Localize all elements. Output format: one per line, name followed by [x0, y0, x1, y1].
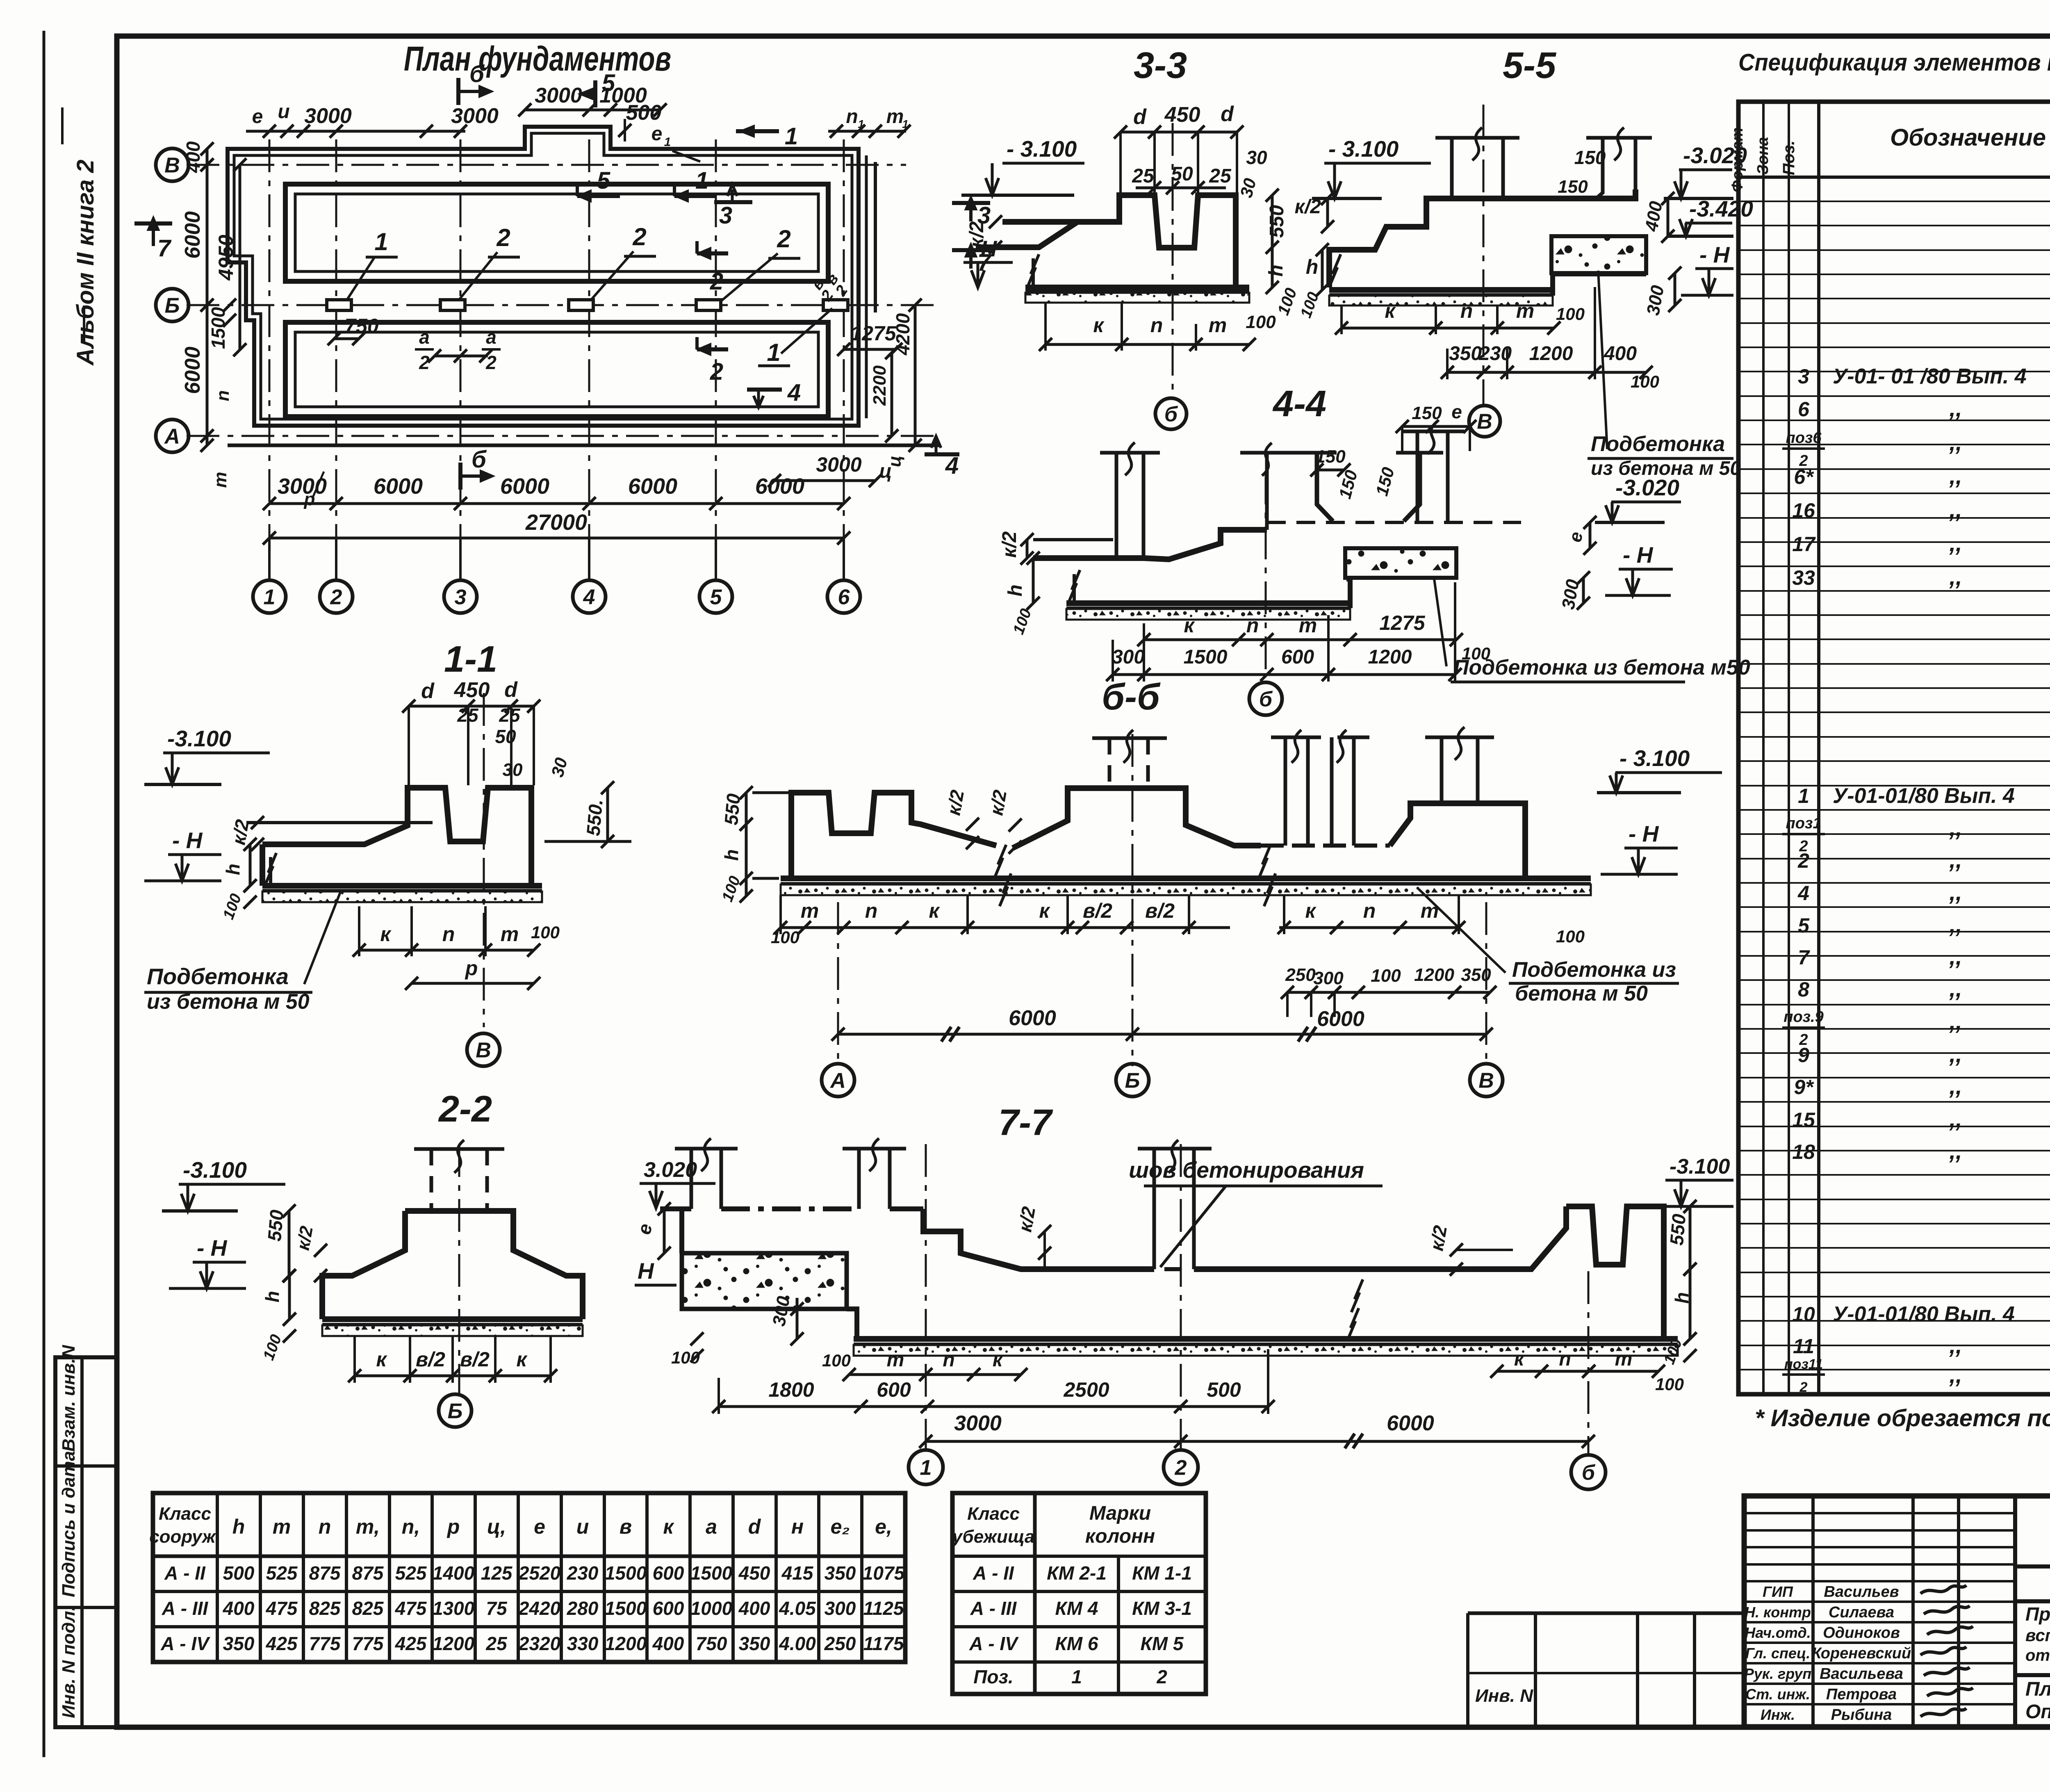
svg-text:230: 230: [567, 1562, 599, 1584]
svg-text:3000: 3000: [535, 84, 582, 107]
svg-text:* Изделие обрезается по мес: * Изделие обрезается по месту.: [1755, 1405, 2050, 1432]
svg-text:1: 1: [664, 135, 671, 149]
svg-text:3000: 3000: [816, 453, 861, 476]
svg-text:3000: 3000: [954, 1411, 1002, 1435]
svg-text:d: d: [1133, 105, 1147, 129]
svg-text:А - IV: А - IV: [160, 1633, 210, 1654]
svg-text:2200: 2200: [870, 365, 890, 406]
svg-text:h: h: [222, 864, 244, 875]
spec table grid: [1738, 102, 2050, 1394]
svg-text:к: к: [516, 1348, 528, 1371]
section 3-3 slab: [1025, 285, 1249, 290]
svg-text:В: В: [1478, 1069, 1494, 1093]
section 4-4 axis line: [1265, 472, 1267, 676]
svg-text:1: 1: [785, 123, 798, 150]
svg-text:50: 50: [495, 726, 516, 747]
svg-text:Васильев: Васильев: [1824, 1583, 1899, 1600]
svg-text:6000: 6000: [1387, 1411, 1434, 1435]
svg-text:1: 1: [767, 339, 780, 366]
svg-text:убежища: убежища: [951, 1527, 1034, 1547]
svg-text:1075: 1075: [863, 1562, 905, 1584]
svg-text:,,: ,,: [1949, 1106, 1962, 1132]
svg-text:-3.020: -3.020: [1615, 475, 1679, 500]
svg-text:825: 825: [352, 1598, 384, 1619]
svg-text:У-01- 01 /80 Вып. 4: У-01- 01 /80 Вып. 4: [1833, 365, 2027, 388]
svg-text:27000: 27000: [525, 510, 587, 535]
svg-text:100: 100: [531, 923, 560, 942]
section 7-7 slab: [854, 1336, 1678, 1342]
svg-text:250: 250: [1285, 965, 1316, 985]
section 2-2 axis circle Б: [439, 1394, 471, 1427]
svg-text:2: 2: [496, 224, 510, 251]
svg-text:Н: Н: [638, 1258, 654, 1284]
column circle 4: [573, 580, 606, 613]
svg-text:550.: 550.: [582, 798, 607, 837]
svg-text:350: 350: [1461, 965, 1491, 985]
svg-text:775: 775: [352, 1633, 384, 1654]
svg-text:2: 2: [1797, 849, 1809, 872]
svg-text:425: 425: [395, 1633, 427, 1654]
svg-text:- 3.100: - 3.100: [1328, 136, 1399, 162]
svg-text:е: е: [252, 106, 263, 128]
svg-text:1: 1: [374, 228, 388, 255]
svg-text:КМ 5: КМ 5: [1141, 1633, 1184, 1654]
svg-text:2: 2: [1799, 1379, 1808, 1395]
svg-text:,,: ,,: [1949, 847, 1962, 873]
svg-text:- Н: - Н: [1699, 242, 1730, 267]
svg-text:2500: 2500: [1063, 1378, 1109, 1401]
svg-text:,,: ,,: [1949, 1073, 1962, 1099]
svg-text:В: В: [164, 154, 180, 178]
section 4-4 left columns: [1115, 453, 1118, 558]
svg-text:е: е: [1451, 401, 1462, 422]
column axis lines 1..6: [269, 139, 271, 579]
svg-text:Зона: Зона: [1754, 137, 1772, 175]
svg-text:-3.100: -3.100: [183, 1157, 247, 1183]
svg-text:1-1: 1-1: [444, 639, 497, 680]
column circle 6: [827, 580, 860, 613]
svg-text:Поз.: Поз.: [1780, 141, 1798, 176]
svg-text:А - II: А - II: [973, 1562, 1014, 1584]
svg-text:h: h: [1306, 255, 1319, 278]
svg-text:КМ 1-1: КМ 1-1: [1132, 1562, 1192, 1584]
section 4-4 foundation outline: [1033, 530, 1267, 559]
section 7-7 top surface: [660, 1206, 691, 1211]
svg-text:е: е: [1565, 530, 1587, 544]
svg-text:Взам. инв.N: Взам. инв.N: [59, 1345, 79, 1452]
section 4-4 slab: [1066, 600, 1350, 606]
svg-text:к/2: к/2: [1295, 196, 1321, 218]
svg-text:100: 100: [719, 874, 744, 904]
section 1-1 axis line: [483, 693, 485, 1027]
svg-text:Васильева: Васильева: [1820, 1665, 1903, 1683]
svg-text:18: 18: [1792, 1140, 1815, 1163]
svg-text:25: 25: [499, 704, 521, 726]
svg-text:- 3.100: - 3.100: [1007, 136, 1077, 162]
svg-text:Марки: Марки: [1089, 1502, 1151, 1524]
svg-text:6000: 6000: [1317, 1007, 1364, 1031]
svg-text:h: h: [262, 1291, 283, 1302]
svg-text:5: 5: [602, 70, 615, 96]
svg-text:вспомогательного назначения: вспомогательного назначения: [2025, 1626, 2050, 1645]
svg-text:к: к: [380, 923, 392, 946]
svg-text:550: 550: [264, 1209, 288, 1242]
svg-text:n: n: [319, 1515, 331, 1538]
svg-text:поз1: поз1: [1786, 815, 1822, 832]
svg-text:550: 550: [1266, 205, 1288, 238]
svg-text:400: 400: [223, 1598, 255, 1619]
svg-text:600: 600: [653, 1562, 684, 1584]
svg-text:525: 525: [266, 1562, 298, 1584]
svg-text:к: к: [993, 1349, 1004, 1371]
svg-text:10: 10: [1792, 1303, 1815, 1326]
svg-text:100: 100: [1274, 286, 1301, 318]
section 5-5 columns: [1450, 138, 1454, 198]
section flag 4 (right): [925, 452, 959, 456]
svg-text:11: 11: [1793, 1335, 1814, 1358]
svg-text:300: 300: [825, 1598, 856, 1619]
svg-text:Обозначение: Обозначение: [1890, 124, 2046, 151]
svg-text:150: 150: [1574, 147, 1606, 168]
section 6-6 left mound outline: [791, 793, 996, 878]
svg-text:450: 450: [738, 1562, 770, 1584]
svg-text:б: б: [1582, 1461, 1596, 1485]
section 2-2 dashed column: [430, 1149, 433, 1211]
svg-text:Производственное здание: Производственное здание: [2025, 1603, 2050, 1625]
svg-text:16: 16: [1792, 499, 1815, 522]
svg-text:-3.420: -3.420: [1689, 196, 1753, 221]
svg-text:Б: Б: [448, 1400, 463, 1423]
section flag 4 (inside): [747, 388, 782, 392]
svg-text:,,: ,,: [1949, 1332, 1962, 1358]
svg-text:400: 400: [1604, 343, 1637, 365]
svg-text:30: 30: [503, 760, 523, 780]
svg-text:4.00: 4.00: [779, 1633, 816, 1654]
svg-text:к/2: к/2: [1014, 1205, 1039, 1233]
svg-text:к: к: [1184, 614, 1195, 637]
svg-text:6000: 6000: [755, 474, 804, 499]
svg-text:Кореневский: Кореневский: [1812, 1645, 1911, 1662]
svg-text:б: б: [1164, 403, 1178, 426]
svg-text:1500: 1500: [1184, 646, 1228, 668]
svg-text:а: а: [486, 326, 497, 348]
svg-text:Одиноков: Одиноков: [1823, 1624, 1900, 1642]
section 6-6 middle mound outline: [1013, 788, 1261, 848]
svg-text:к/2: к/2: [985, 788, 1011, 817]
svg-text:350: 350: [1449, 343, 1482, 365]
svg-text:33: 33: [1792, 566, 1815, 589]
section 6-6 axis circle А: [822, 1064, 854, 1097]
section 6-6 dashed column above Б: [1108, 738, 1112, 788]
svg-text:Н. контр: Н. контр: [1745, 1604, 1811, 1621]
svg-text:Спецификация элементов к схема: Спецификация элементов к схемам располож…: [1738, 49, 2050, 76]
svg-text:н: н: [791, 1515, 804, 1538]
svg-text:6*: 6*: [1794, 465, 1814, 488]
svg-text:2420: 2420: [518, 1598, 561, 1619]
plan outer contour: [228, 127, 859, 426]
column circle 1: [253, 580, 286, 613]
svg-text:4.05: 4.05: [779, 1598, 816, 1619]
svg-text:В: В: [1477, 410, 1492, 434]
section 7-7 second columns: [857, 1149, 861, 1209]
svg-text:поз11: поз11: [1784, 1357, 1823, 1372]
svg-text:- Н: - Н: [1629, 821, 1659, 846]
column circle 2: [320, 580, 353, 613]
svg-text:сооруж.: сооруж.: [149, 1527, 221, 1547]
svg-text:d: d: [1221, 102, 1234, 126]
svg-text:h: h: [721, 849, 742, 861]
svg-text:к: к: [376, 1348, 387, 1371]
svg-text:4: 4: [583, 586, 595, 609]
section flag 1 (top): [736, 129, 779, 133]
svg-text:бетона м 50: бетона м 50: [1515, 982, 1648, 1005]
section 7-7 right crown: [1566, 1206, 1664, 1339]
svg-text:h: h: [1265, 264, 1287, 276]
svg-text:поз.9: поз.9: [1783, 1008, 1824, 1026]
svg-text:m: m: [801, 899, 819, 922]
section 6-6 axis lines: [837, 902, 839, 1066]
svg-text:1: 1: [1071, 1666, 1082, 1687]
svg-text:к/2: к/2: [999, 531, 1020, 558]
svg-text:n: n: [865, 899, 878, 922]
svg-text:е₂: е₂: [831, 1515, 850, 1538]
svg-text:n: n: [846, 106, 858, 128]
svg-text:3-3: 3-3: [1134, 45, 1187, 86]
section 6-6 axis circle В: [1470, 1064, 1503, 1097]
section flag 1 (inside): [674, 194, 717, 198]
svg-text:17: 17: [1792, 533, 1816, 556]
svg-text:n,: n,: [402, 1515, 420, 1538]
svg-text:Поз.: Поз.: [973, 1666, 1013, 1687]
svg-text:1500: 1500: [207, 307, 229, 349]
svg-text:m: m: [1299, 614, 1317, 637]
svg-text:Подпись и дата: Подпись и дата: [59, 1451, 79, 1597]
svg-text:,,: ,,: [1949, 1138, 1962, 1164]
svg-text:415: 415: [781, 1562, 814, 1584]
svg-text:1275: 1275: [850, 322, 896, 345]
section 7-7 circle 1: [909, 1450, 943, 1484]
svg-text:100: 100: [1371, 966, 1401, 986]
svg-text:в/2: в/2: [1145, 899, 1175, 922]
svg-text:а: а: [419, 326, 430, 348]
svg-text:1300: 1300: [433, 1598, 475, 1619]
svg-text:m: m: [887, 1349, 904, 1371]
svg-text:- 3.100: - 3.100: [1619, 746, 1690, 771]
svg-text:б-б: б-б: [1102, 677, 1161, 718]
section 7-7 third columns: [1153, 1149, 1156, 1269]
section 2-2 slab: [322, 1316, 583, 1322]
svg-text:475: 475: [395, 1598, 427, 1619]
svg-text:5-5: 5-5: [1503, 45, 1557, 86]
svg-text:125: 125: [481, 1562, 513, 1584]
svg-text:6: 6: [1798, 398, 1810, 421]
svg-text:4: 4: [787, 379, 801, 406]
svg-text:400: 400: [652, 1633, 684, 1654]
section 5-5 step and podbetonka block: [1553, 274, 1646, 296]
svg-text:,,: ,,: [1949, 815, 1962, 841]
svg-text:750: 750: [696, 1633, 727, 1654]
svg-text:d: d: [504, 678, 518, 702]
svg-text:2: 2: [710, 268, 723, 295]
svg-text:к: к: [1514, 1348, 1525, 1370]
svg-text:6000: 6000: [628, 474, 677, 499]
svg-text:2: 2: [710, 358, 723, 385]
svg-text:6000: 6000: [374, 474, 423, 499]
svg-text:,,: ,,: [1949, 1362, 1962, 1388]
svg-text:150: 150: [1558, 177, 1588, 197]
svg-text:n: n: [1460, 299, 1473, 322]
svg-text:6: 6: [838, 586, 850, 609]
svg-text:500: 500: [223, 1562, 255, 1584]
svg-text:поз6: поз6: [1786, 429, 1822, 447]
svg-text:75: 75: [486, 1598, 508, 1619]
svg-text:600: 600: [877, 1378, 911, 1401]
svg-text:7-7: 7-7: [998, 1102, 1053, 1143]
column circle 5: [699, 580, 732, 613]
svg-text:n: n: [213, 390, 233, 401]
svg-text:6000: 6000: [181, 211, 205, 259]
svg-text:-3.100: -3.100: [167, 726, 231, 751]
axis line В: [187, 164, 906, 166]
svg-text:в: в: [620, 1515, 632, 1538]
section 2-2 axis line: [458, 1144, 460, 1393]
svg-text:Подбетонка из: Подбетонка из: [1512, 958, 1676, 982]
svg-text:,,: ,,: [1949, 1041, 1962, 1067]
svg-text:100: 100: [771, 928, 799, 947]
svg-text:100: 100: [822, 1351, 851, 1370]
svg-text:- Н: - Н: [1623, 542, 1654, 568]
svg-text:875: 875: [309, 1562, 341, 1584]
svg-text:шов бетонирования: шов бетонирования: [1129, 1157, 1364, 1183]
svg-text:Инв. N: Инв. N: [1475, 1686, 1533, 1706]
svg-text:2: 2: [632, 223, 646, 251]
svg-text:1125: 1125: [863, 1598, 904, 1619]
section 7-7 left wall + concrete block: [679, 1209, 684, 1253]
svg-text:425: 425: [266, 1633, 298, 1654]
section 7-7 circle 2: [1164, 1450, 1198, 1484]
svg-text:280: 280: [567, 1598, 599, 1619]
section 6-6 slab: [781, 875, 1591, 881]
section 6-6 right columns group: [1284, 737, 1287, 846]
lower room walls: [285, 322, 828, 417]
svg-text:к: к: [663, 1515, 674, 1538]
svg-text:h: h: [232, 1515, 245, 1538]
svg-text:30: 30: [1236, 176, 1260, 200]
svg-text:А - II: А - II: [164, 1562, 206, 1584]
svg-text:m: m: [886, 106, 904, 128]
svg-text:50: 50: [1171, 163, 1193, 185]
svg-text:25: 25: [485, 1633, 508, 1654]
svg-text:в/2: в/2: [460, 1348, 490, 1371]
svg-text:150: 150: [1315, 447, 1346, 467]
svg-text:100: 100: [1556, 927, 1585, 946]
svg-text:m: m: [1209, 314, 1227, 337]
svg-text:е: е: [534, 1515, 545, 1538]
svg-text:m: m: [273, 1515, 291, 1538]
svg-text:100: 100: [1556, 304, 1585, 324]
section flag 5 (top): [593, 80, 597, 107]
svg-text:-3.100: -3.100: [1670, 1155, 1730, 1179]
svg-text:150: 150: [1372, 465, 1398, 498]
svg-text:30: 30: [1246, 147, 1267, 168]
svg-text:n: n: [1559, 1348, 1571, 1370]
svg-text:m: m: [1516, 299, 1534, 322]
section 5-5 axis line: [1483, 105, 1485, 404]
section flags 2-2: [697, 251, 728, 255]
svg-text:100: 100: [1297, 290, 1322, 320]
svg-text:в/2: в/2: [416, 1348, 445, 1371]
svg-text:Нач.отд.: Нач.отд.: [1745, 1624, 1811, 1641]
svg-text:300: 300: [1112, 646, 1145, 668]
svg-text:n: n: [1246, 614, 1259, 637]
svg-text:План фундаментов: План фундаментов: [404, 39, 671, 78]
svg-text:450: 450: [1164, 103, 1200, 127]
svg-text:825: 825: [309, 1598, 341, 1619]
axis circle А: [156, 420, 189, 452]
svg-text:525: 525: [395, 1562, 427, 1584]
section 5-5 slab: [1329, 287, 1553, 293]
svg-text:Опалубочные чертежи.: Опалубочные чертежи.: [2025, 1701, 2050, 1723]
section flag б (top): [456, 78, 460, 105]
svg-text:3: 3: [1798, 365, 1809, 388]
svg-text:Подбетонка из бетона м50: Подбетонка из бетона м50: [1453, 656, 1750, 679]
svg-text:4950: 4950: [214, 235, 237, 280]
svg-text:и: и: [278, 101, 289, 123]
svg-text:1500: 1500: [605, 1598, 647, 1619]
svg-text:8: 8: [1798, 978, 1809, 1001]
section 3-3 axis line: [1172, 123, 1174, 396]
svg-text:1200: 1200: [1414, 965, 1454, 985]
svg-text:к: к: [929, 899, 940, 922]
svg-text:А - III: А - III: [970, 1598, 1017, 1619]
section 3-3 right dims 550 h: [1271, 195, 1274, 287]
svg-text:,,: ,,: [1949, 463, 1962, 489]
axis circle В: [156, 148, 189, 181]
svg-text:6000: 6000: [181, 347, 205, 394]
svg-text:,,: ,,: [1949, 530, 1962, 556]
svg-text:500: 500: [1207, 1378, 1241, 1401]
svg-text:m: m: [1421, 899, 1439, 922]
svg-text:4: 4: [945, 452, 959, 479]
svg-text:6000: 6000: [1009, 1006, 1056, 1030]
svg-text:к: к: [1039, 899, 1050, 922]
svg-text:2: 2: [777, 225, 790, 253]
svg-text:n: n: [1363, 899, 1376, 922]
axis line Б: [187, 304, 939, 306]
svg-text:500: 500: [626, 101, 662, 125]
section 1-1 slab: [262, 883, 542, 889]
section 3-3 foundation outline: [1002, 195, 1236, 287]
svg-text:- Н: - Н: [172, 828, 203, 853]
svg-text:1275: 1275: [1379, 611, 1425, 634]
svg-text:б: б: [1259, 688, 1273, 711]
svg-text:,,: ,,: [1949, 497, 1962, 522]
svg-text:m: m: [1615, 1348, 1633, 1370]
paper edge line: [43, 31, 46, 1757]
axis circle Б: [156, 289, 189, 321]
svg-text:1200: 1200: [1529, 343, 1573, 365]
section 6-6 left dim col 550 h 100: [745, 793, 748, 896]
svg-text:ц: ц: [879, 461, 892, 482]
svg-text:План фундаментов и колонн.: План фундаментов и колонн.: [2025, 1678, 2050, 1700]
svg-text:,,: ,,: [1949, 879, 1962, 905]
svg-text:15: 15: [1792, 1108, 1815, 1131]
svg-text:1000: 1000: [690, 1598, 733, 1619]
svg-text:775: 775: [309, 1633, 341, 1654]
svg-text:Б: Б: [165, 294, 180, 318]
section flag 3 (inside plan): [714, 200, 752, 204]
svg-text:Рук. груп: Рук. груп: [1744, 1665, 1812, 1682]
